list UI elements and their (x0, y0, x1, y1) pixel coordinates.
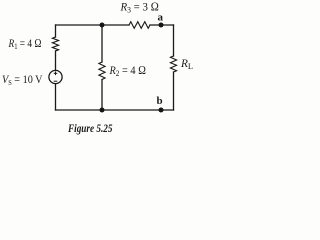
wire: top rail left segment (56, 24, 130, 26)
resistor R2 (99, 62, 105, 80)
svg-text:b: b (157, 95, 163, 107)
junction: R2 bottom (100, 108, 105, 113)
svg-text:R3 = 3 Ω: R3 = 3 Ω (120, 0, 159, 15)
wire: left rail middle (55, 51, 57, 70)
voltage source VS polarity minus (54, 80, 58, 82)
svg-text:Figure 5.25: Figure 5.25 (67, 123, 112, 135)
node a (159, 23, 164, 28)
voltage source VS polarity plus (54, 72, 58, 82)
svg-text:VS = 10 V: VS = 10 V (2, 72, 43, 87)
wire: middle branch lower (101, 80, 103, 111)
junction: R2 top (100, 23, 105, 28)
wire: left rail bottom (55, 84, 57, 110)
svg-text:R2 = 4 Ω: R2 = 4 Ω (109, 63, 146, 78)
resistor R3 (129, 22, 150, 29)
wire: top rail right segment (150, 24, 174, 26)
resistor R1 (52, 37, 58, 51)
svg-text:a: a (158, 12, 164, 24)
node b (159, 108, 164, 113)
svg-text:RL: RL (180, 58, 193, 71)
svg-text:R1 = 4 Ω: R1 = 4 Ω (8, 36, 42, 51)
resistor RL (170, 56, 176, 72)
wire: middle branch upper (101, 25, 103, 62)
wire: right rail lower (173, 72, 175, 110)
voltage source VS (49, 70, 62, 83)
wire: right rail upper (173, 25, 175, 56)
wire: bottom rail (56, 109, 174, 111)
wire: left rail top (55, 25, 57, 37)
